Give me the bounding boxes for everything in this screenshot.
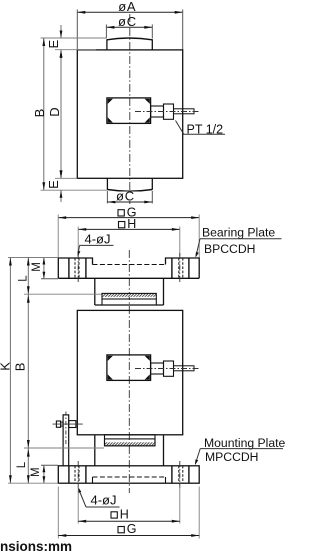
ext M top bar — [41, 278, 58, 280]
ext line øC bottom right — [151, 191, 153, 203]
check bolt shaft bottom — [61, 425, 64, 427]
dim E bottom lower arrow — [60, 190, 63, 198]
dim E bottom shaft below — [60, 190, 62, 202]
top rocker hatched band — [102, 293, 156, 296]
label 4-ØJ top leader — [78, 245, 80, 255]
bearing plate top edge right part — [166, 258, 200, 278]
svg-text:øC: øC — [118, 14, 137, 29]
label 4-ØJ bottom leader — [79, 490, 86, 508]
dim K bottom arrow — [9, 475, 12, 483]
dim G bottom arrows — [58, 534, 66, 537]
svg-text:H: H — [127, 217, 136, 231]
dim H top label square — [119, 222, 125, 228]
ext line E bottom upper — [55, 177, 77, 179]
dim H bottom line — [78, 520, 180, 522]
mounting plate hole wall right-inner — [171, 466, 173, 483]
bottom cap arc fig1 — [107, 190, 152, 192]
svg-text:4-øJ: 4-øJ — [85, 232, 111, 247]
dim øA line — [77, 11, 182, 13]
check bolt washer — [69, 421, 76, 428]
screw a bottom-left — [108, 374, 113, 379]
mounting plate hole wall right-outer — [188, 466, 190, 483]
screw a bottom-right — [145, 374, 150, 379]
ext line øA left — [76, 10, 78, 50]
bottom boss outline — [105, 435, 156, 446]
label 4-ØJ bottom underline — [86, 506, 120, 508]
svg-text:M: M — [30, 467, 42, 477]
svg-text:E: E — [46, 180, 61, 189]
dim B fig1 line — [43, 38, 45, 190]
dim M top line — [43, 258, 45, 279]
top boss wall left — [101, 299, 103, 305]
screw top-left — [108, 99, 113, 104]
dim G top right arrow — [191, 216, 199, 219]
mounting plate leader — [196, 449, 201, 464]
dim øC top right arrow — [144, 26, 152, 29]
ext plate bottom left (K/L) — [8, 482, 58, 484]
label Mounting Plate underline — [200, 448, 283, 450]
hole centerline right bottom plate — [179, 461, 181, 488]
dim H top left arrow — [78, 228, 86, 231]
hole centerline left top plate — [77, 253, 79, 283]
cable gland nut assembly — [164, 361, 174, 376]
dim H top right arrow — [172, 228, 180, 231]
hole centerline right top plate — [179, 253, 181, 283]
check bolt shaft top — [61, 421, 64, 423]
ext H bottom left — [77, 487, 79, 524]
skirt bottom edge — [95, 304, 164, 306]
svg-text:H: H — [120, 507, 129, 521]
svg-text:BPCCDH: BPCCDH — [204, 242, 255, 256]
screw bottom-right — [145, 117, 150, 122]
dim øC bottom right arrow — [144, 201, 152, 204]
svg-text:D: D — [47, 107, 62, 116]
mounting plate leader arrow — [195, 459, 198, 465]
svg-text:G: G — [127, 522, 137, 536]
skirt below bearing plate left — [94, 278, 96, 305]
dim øC bottom left arrow — [107, 201, 115, 204]
dim D line — [60, 50, 62, 178]
ext G bottom left — [57, 487, 59, 539]
ext line E top lower — [55, 49, 96, 51]
ext line øC bottom left — [106, 191, 108, 203]
centerline fig1 — [129, 14, 131, 204]
ext plate top left (K/L/M) — [8, 257, 58, 259]
dim øC bottom line — [107, 201, 152, 203]
PT 1/2 leader — [176, 121, 226, 135]
bottom cap right edge fig1 — [151, 178, 153, 190]
check bolt head — [56, 421, 60, 427]
ext rocker contact bottom — [24, 447, 104, 449]
svg-text:øA: øA — [118, 0, 136, 14]
mounting plate recess wall left — [92, 477, 94, 483]
ext line B top — [41, 37, 108, 39]
dim B fig1 bottom arrow — [42, 182, 45, 190]
svg-text:Bearing Plate: Bearing Plate — [202, 226, 275, 240]
conduit stub assembly — [174, 366, 195, 371]
mounting plate hole hidden right pair — [178, 466, 180, 483]
ext line øA right — [182, 10, 184, 50]
dim H bottom label square — [111, 512, 117, 518]
label Bearing Plate underline — [200, 238, 282, 240]
check bolt axis tick — [65, 412, 67, 446]
dim M bottom line — [43, 465, 45, 483]
load cell body outline fig1 — [77, 50, 182, 178]
svg-text:PT 1/2: PT 1/2 — [187, 122, 224, 136]
svg-text:L: L — [17, 275, 29, 282]
screw top-right — [145, 99, 150, 104]
check bolt axis — [53, 423, 83, 425]
dim K top arrow — [9, 258, 12, 266]
ext G top right — [198, 215, 200, 258]
bottom skirt left — [94, 435, 96, 465]
dim K line — [9, 258, 11, 484]
dim G top label square — [118, 210, 124, 216]
dim D bottom arrow — [60, 170, 63, 178]
gland axis centerline assembly — [135, 368, 199, 370]
screw a top-left — [108, 356, 113, 361]
screw bottom-left — [108, 117, 113, 122]
ext line B bottom — [41, 189, 108, 191]
svg-text:B: B — [13, 363, 28, 372]
dim øC bottom text — [114, 192, 140, 202]
dim E top lower arrow — [60, 50, 63, 58]
dim L top / B / L bottom shared line — [27, 258, 29, 484]
cable gland tube assembly — [151, 363, 164, 374]
ext G bottom right — [198, 487, 200, 539]
mounting plate hole wall left-outer — [68, 466, 70, 483]
svg-text:4-øJ: 4-øJ — [91, 493, 117, 508]
ext line øC top left — [105, 25, 107, 39]
mounting plate hole hidden left pair — [74, 466, 76, 483]
dim B fig1 top arrow — [42, 38, 45, 46]
dim L bottom arrows — [27, 449, 30, 457]
dim øC top left arrow — [106, 26, 114, 29]
mounting plate recess hidden line — [93, 476, 166, 478]
svg-text:K: K — [0, 362, 12, 371]
ext line øC top right — [151, 25, 153, 39]
dim øA right arrow — [175, 11, 183, 14]
dim G bottom label square — [118, 527, 124, 533]
dim D top arrow — [60, 50, 63, 58]
bearing plate hole wall left-outer — [68, 258, 70, 278]
bearing plate recess hidden line — [93, 264, 166, 266]
dim øA left arrow — [77, 11, 85, 14]
bearing plate hole wall left-inner — [85, 258, 87, 278]
screw a top-right — [145, 356, 150, 361]
label 4-ØJ top leader arrow — [78, 251, 81, 257]
ext G top left — [57, 215, 59, 258]
cable gland nut fig1 — [164, 104, 174, 119]
svg-text:Mounting Plate: Mounting Plate — [204, 436, 286, 450]
dim L top arrows — [27, 258, 30, 266]
dim øC top line — [106, 26, 152, 28]
dim G top line — [58, 217, 199, 219]
label 4-ØJ bottom leader arrow — [78, 487, 81, 493]
bearing plate hole hidden left pair — [74, 258, 76, 278]
top boss wall right — [155, 299, 157, 305]
bearing plate hole wall right-outer — [188, 258, 190, 278]
centerline assembly — [128, 250, 130, 493]
ext H bottom right — [179, 487, 181, 524]
gland axis centerline fig1 — [135, 111, 199, 113]
svg-text:Dimensions:mm: Dimensions:mm — [0, 539, 72, 552]
top cap arc (load button washer) — [107, 38, 152, 40]
assembly body outline — [77, 310, 182, 434]
check bolt tab — [63, 415, 69, 466]
dim H bottom arrows — [78, 520, 86, 523]
bearing plate leader arrow — [195, 252, 198, 258]
cable gland tube fig1 — [151, 106, 164, 117]
dim E bottom upper arrow — [60, 171, 63, 179]
svg-text:øC: øC — [116, 189, 135, 204]
ext H top left / hole centerline — [77, 227, 79, 257]
top cap left edge — [106, 39, 108, 50]
mounting plate hole wall left-inner — [85, 466, 87, 483]
bottom cap left edge fig1 — [106, 178, 108, 190]
bottom skirt right — [163, 435, 165, 465]
dim G top left arrow — [58, 216, 66, 219]
bottom rocker hatched band — [105, 442, 156, 446]
conduit stub fig1 — [174, 109, 195, 114]
ext rocker contact top — [24, 293, 102, 295]
hole centerline left bottom plate — [77, 461, 79, 488]
dim E top upper arrow — [60, 31, 63, 39]
bearing plate hole wall right-inner — [171, 258, 173, 278]
bearing plate outline: top edge left part — [58, 258, 92, 278]
dim H top line — [78, 228, 180, 230]
svg-text:MPCCDH: MPCCDH — [205, 450, 259, 464]
ext H top right / hole centerline — [179, 227, 181, 257]
dim M top arrows — [43, 258, 46, 265]
dim G bottom line — [58, 535, 199, 537]
dim M bottom arrows — [43, 465, 46, 472]
dim E top shaft — [60, 25, 62, 38]
svg-text:M: M — [31, 262, 43, 272]
dim B assembly arrows — [27, 295, 30, 303]
connector box assembly — [107, 355, 151, 381]
svg-text:L: L — [16, 461, 28, 468]
svg-text:B: B — [32, 109, 47, 118]
bearing plate hole hidden right pair — [178, 258, 180, 278]
bearing plate leader — [196, 239, 200, 256]
mounting plate recess wall right — [165, 477, 167, 483]
label 4-ØJ top underline — [80, 244, 114, 246]
top cap right edge — [151, 39, 153, 50]
ext M bottom bar — [41, 464, 58, 466]
skirt below bearing plate right — [163, 278, 165, 305]
svg-text:E: E — [46, 40, 61, 49]
mounting plate outline — [58, 466, 199, 483]
bearing plate bottom edge — [58, 277, 199, 279]
connector box fig1 — [107, 98, 151, 124]
